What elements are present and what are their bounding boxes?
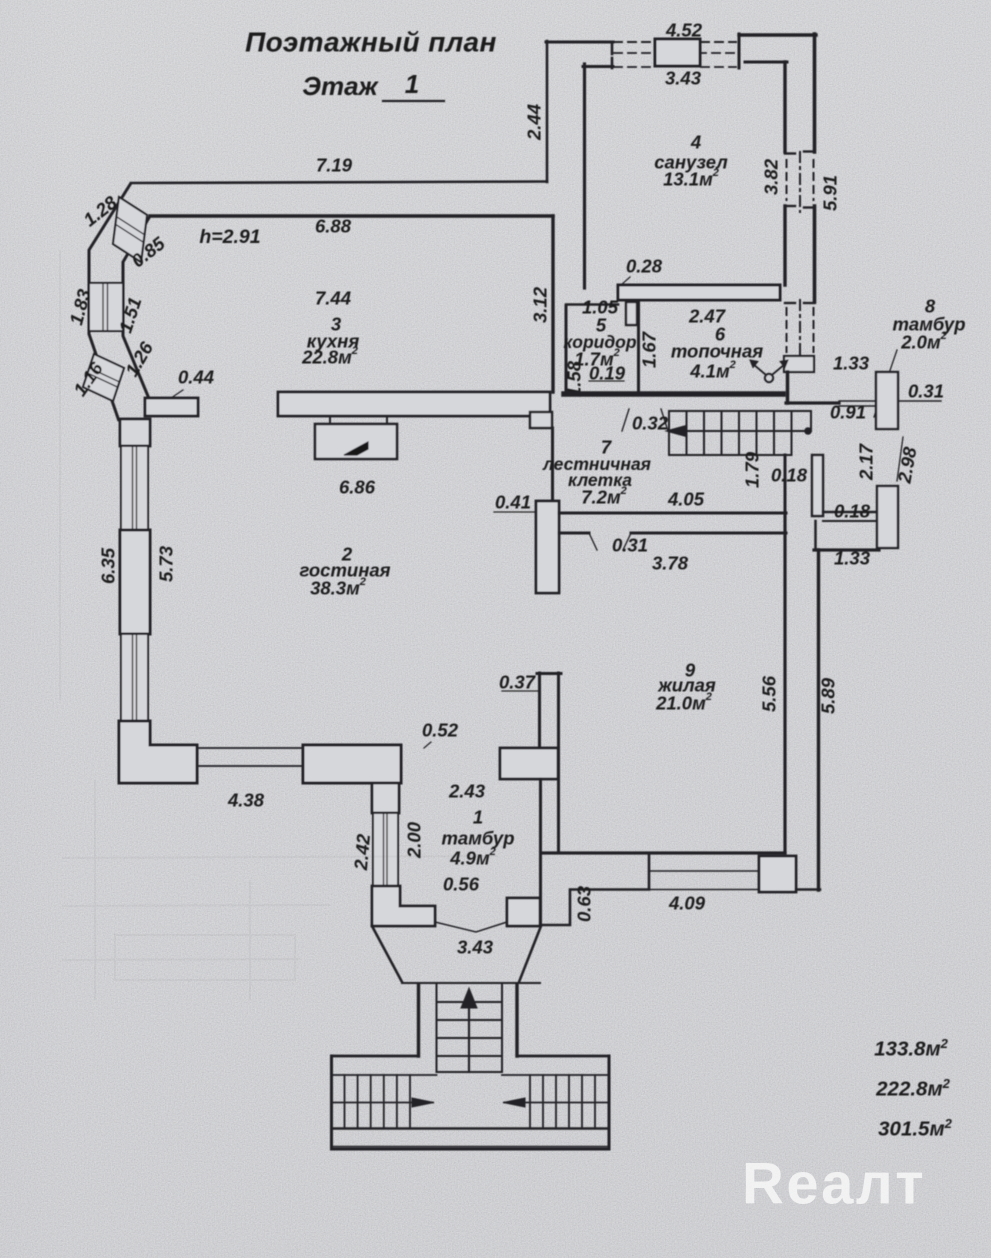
svg-text:0.63: 0.63	[574, 885, 595, 922]
svg-text:13.1м2: 13.1м2	[663, 167, 719, 190]
svg-text:5.73: 5.73	[156, 545, 177, 582]
wall block 0.44	[145, 398, 198, 416]
svg-text:4.09: 4.09	[668, 893, 706, 914]
svg-text:6.86: 6.86	[339, 477, 376, 498]
svg-text:222.8м2: 222.8м2	[875, 1076, 950, 1101]
east window2 feet top	[785, 302, 795, 304]
door symbol	[765, 374, 773, 382]
window 4.09 lines	[649, 870, 759, 872]
leader 0.28	[621, 277, 630, 285]
porch arrow right	[412, 1098, 434, 1107]
dim 2.44	[524, 104, 545, 141]
wall: SW corner block	[119, 721, 197, 783]
dim 6.35	[98, 547, 119, 584]
wall: room8 south (1.33)	[786, 401, 839, 404]
svg-text:4.05: 4.05	[667, 489, 705, 510]
wall: landing south bottom line a	[559, 532, 589, 535]
wall: топочная west stub	[626, 302, 637, 325]
floor underline	[383, 100, 444, 102]
east window dash-dot axis	[799, 152, 801, 212]
wall: tambour west upper	[372, 783, 399, 813]
fireplace box	[315, 424, 397, 459]
svg-text:22.8м2: 22.8м2	[301, 345, 358, 368]
dim 1.67	[639, 330, 660, 368]
svg-text:тамбур: тамбур	[441, 828, 514, 849]
dim 1.51	[114, 295, 145, 336]
wall: NE outer vertical mid	[813, 206, 817, 302]
svg-text:1: 1	[405, 69, 419, 99]
svg-text:2.0м2: 2.0м2	[900, 330, 947, 353]
svg-text:3.12: 3.12	[530, 286, 551, 323]
door threshold line	[435, 922, 507, 932]
svg-text:Reaлт: Reaлт	[742, 1152, 926, 1217]
wall: room8 west	[786, 372, 790, 403]
dim 2.17	[856, 442, 877, 481]
svg-text:0.91: 0.91	[830, 402, 866, 423]
wall: south mid block	[303, 745, 401, 783]
svg-text:2.42: 2.42	[350, 832, 374, 871]
svg-text:1.33: 1.33	[833, 353, 870, 374]
dim 0.31 line	[899, 400, 941, 402]
svg-text:1.67: 1.67	[639, 330, 660, 368]
dim 2.98	[893, 445, 920, 486]
wall: room4 inner east lower	[783, 206, 786, 285]
wall: landing west wall	[551, 428, 554, 501]
wall: kitchen inner top (6.88)	[150, 214, 553, 217]
window WB west	[121, 634, 148, 721]
porch inner line top	[332, 1074, 437, 1076]
wall: NW inner diagonal+west	[123, 216, 150, 401]
dim 1.16	[69, 358, 107, 400]
svg-text:0.31: 0.31	[612, 535, 648, 556]
svg-text:301.5м2: 301.5м2	[878, 1116, 952, 1141]
svg-text:4.52: 4.52	[665, 20, 703, 41]
svg-text:21.0м2: 21.0м2	[655, 691, 712, 714]
porch low line2	[332, 1146, 610, 1148]
svg-text:h=2.91: h=2.91	[199, 226, 260, 248]
wall: kitchen outer top (7.19)	[131, 182, 547, 184]
wall: east jog vertical	[814, 521, 817, 550]
wall: коридор top	[566, 303, 618, 306]
dim 0.37 underline	[502, 690, 538, 692]
porch flight wall left	[417, 984, 420, 1056]
svg-text:5.91: 5.91	[820, 175, 841, 211]
wall: SE corner block	[759, 856, 796, 892]
porch flight treads	[437, 1001, 503, 1003]
east window2 dashed inner	[786, 308, 788, 352]
wall: room8 top block	[784, 356, 814, 372]
wall: west top block	[120, 419, 150, 446]
dim 1.83	[65, 286, 95, 327]
porch wing treads left	[344, 1075, 346, 1128]
east window feet lower	[785, 205, 795, 207]
svg-text:3.43: 3.43	[457, 937, 494, 958]
svg-text:6.35: 6.35	[98, 547, 119, 584]
svg-text:0.18: 0.18	[834, 501, 871, 522]
east window feet upper	[785, 152, 795, 154]
wall: landing south bottom line b	[631, 532, 786, 535]
wall: tambour SE block	[507, 898, 540, 926]
window 4.52 dashed low-left	[614, 66, 654, 68]
wall: annex top-right outer	[739, 33, 816, 36]
svg-text:38.3м2: 38.3м2	[310, 576, 366, 599]
window tick left upper	[611, 42, 614, 54]
svg-text:0.44: 0.44	[178, 367, 214, 388]
window 4.52 dashed top-left	[614, 41, 654, 43]
dim 1.58	[564, 360, 585, 397]
window tick right	[738, 34, 741, 68]
window WA west	[121, 446, 148, 530]
leader 0.44	[171, 390, 183, 398]
door box lower	[877, 486, 898, 548]
door trapezoid 0.31	[589, 533, 597, 550]
dim 0.19 underline	[589, 380, 624, 382]
east window2 dash-dot axis	[799, 300, 801, 356]
fireplace icon	[344, 442, 368, 455]
wall: room4 inner top	[745, 61, 787, 64]
window tick left lower	[611, 58, 614, 68]
svg-text:1.33: 1.33	[834, 548, 871, 569]
window WC tambour	[373, 813, 398, 886]
dim 5.89	[818, 677, 839, 714]
porch platform line	[402, 982, 540, 984]
svg-text:7.19: 7.19	[316, 155, 353, 176]
wall: east bar	[812, 455, 823, 516]
dim 2.00	[404, 821, 425, 859]
porch flight wall right	[515, 984, 518, 1056]
porch wing treads right	[529, 1075, 531, 1128]
porch block outline	[330, 1056, 333, 1149]
dim 1.26	[121, 338, 158, 380]
wall: divider 2/9 east line	[557, 673, 560, 853]
svg-text:0.19: 0.19	[589, 363, 626, 384]
fireplace connectors	[329, 416, 331, 424]
door box upper	[876, 372, 898, 429]
svg-text:7.44: 7.44	[315, 288, 351, 309]
east window2 dashed outer	[813, 308, 815, 352]
window W2 west	[89, 283, 123, 331]
svg-text:4.9м2: 4.9м2	[449, 846, 496, 869]
svg-text:2.00: 2.00	[404, 821, 425, 859]
svg-text:3.78: 3.78	[652, 553, 689, 574]
dim 1.79	[742, 451, 763, 488]
wall: tambour SW block	[372, 886, 435, 926]
svg-text:5.56: 5.56	[759, 675, 780, 712]
svg-text:4: 4	[690, 132, 701, 153]
dim 3.12	[530, 286, 551, 323]
window 4.52 dashed top-right	[701, 41, 736, 43]
wall: room9 west	[557, 852, 560, 855]
svg-text:топочная: топочная	[671, 341, 763, 362]
wall: kitchen east	[551, 216, 554, 392]
wall: room9 east	[783, 513, 786, 853]
svg-text:Поэтажный план: Поэтажный план	[245, 27, 497, 58]
porch up arrow	[468, 1000, 470, 1072]
window room8 lines	[839, 400, 876, 402]
svg-text:2.43: 2.43	[448, 781, 486, 802]
wall: топочная west	[637, 302, 640, 392]
stairs direction dot	[804, 427, 812, 435]
wall: band room4/room6 (0.28)	[618, 285, 780, 300]
svg-text:4.1м2: 4.1м2	[689, 359, 736, 382]
wall: pillar 0.41	[536, 501, 559, 593]
wall: kitchen south band	[278, 392, 550, 416]
wall: tambour right west line	[539, 779, 542, 925]
porch flare right	[519, 926, 541, 982]
dim 0.63	[574, 885, 595, 922]
wall: annex top-left	[546, 41, 613, 44]
svg-text:1: 1	[473, 807, 483, 828]
wall: east jog bottom (1.33)	[814, 548, 879, 551]
svg-text:1.79: 1.79	[742, 451, 763, 488]
wall: NE outer corner vertical	[813, 34, 817, 152]
faint bleed-through ghost lines	[60, 250, 498, 1000]
wall: room4 west	[583, 64, 586, 288]
svg-text:0.31: 0.31	[908, 381, 944, 402]
wall: south band outline	[541, 853, 649, 925]
east window dashed inner	[786, 160, 788, 200]
east window dashed outer	[813, 160, 815, 200]
wall: divider 2/9 cap	[537, 672, 561, 675]
svg-text:4.38: 4.38	[227, 790, 265, 811]
svg-text:3.82: 3.82	[761, 158, 782, 195]
wall: divider 2/9 west line	[538, 673, 541, 748]
svg-text:0.37: 0.37	[499, 672, 537, 693]
wall: room4 inner top-left	[583, 65, 613, 68]
dim 5.91	[820, 175, 841, 211]
svg-text:0.32: 0.32	[632, 413, 669, 434]
window 4.52 frame box	[655, 39, 700, 66]
dim 1.28	[79, 191, 121, 230]
wall: room4 inner east upper	[783, 62, 786, 152]
window 4.52 dashed mid	[614, 52, 736, 54]
wall: room9 south	[541, 851, 785, 854]
leader 2.98	[897, 437, 903, 481]
svg-text:Этаж: Этаж	[302, 71, 379, 101]
svg-text:133.8м2: 133.8м2	[874, 1036, 948, 1061]
wall: landing south top line	[559, 512, 786, 515]
svg-text:3.43: 3.43	[665, 68, 702, 89]
wall: NW outer diagonal+west	[89, 183, 131, 421]
window W3 diagonal	[83, 354, 124, 401]
wall: SE corner link	[796, 888, 820, 891]
dim 0.32 trapezoid	[622, 409, 629, 431]
svg-text:0.52: 0.52	[422, 720, 459, 741]
porch arrow left	[503, 1098, 525, 1107]
leader 0.52	[424, 742, 431, 748]
svg-text:0.28: 0.28	[626, 256, 663, 277]
stairs arrowhead	[666, 426, 686, 437]
svg-text:0.56: 0.56	[443, 874, 480, 895]
wall: east jog lines	[823, 511, 876, 514]
dim 0.41 underline	[494, 511, 536, 513]
wall: топочная/лестница south	[564, 391, 783, 397]
dim 5.73	[156, 545, 177, 582]
dim 2.42	[350, 832, 374, 871]
window W1 diagonal	[113, 197, 147, 262]
porch flight inner right	[501, 984, 503, 1072]
svg-text:6.88: 6.88	[315, 216, 352, 237]
svg-text:5.89: 5.89	[818, 677, 839, 714]
svg-text:2.44: 2.44	[524, 104, 545, 141]
wall: north annex left thin vertical (2.44)	[546, 41, 549, 182]
wall: коридор west	[565, 306, 568, 392]
window south lines	[197, 747, 303, 749]
leader room8	[874, 350, 897, 417]
wall: kitchen south band step	[530, 412, 552, 428]
svg-text:7.2м2: 7.2м2	[581, 485, 627, 508]
wall: landing east jog	[784, 455, 787, 513]
porch flight inner left	[436, 984, 438, 1072]
svg-text:2.17: 2.17	[856, 442, 877, 481]
wall: west pier block	[120, 530, 150, 634]
svg-text:0.41: 0.41	[495, 492, 531, 513]
wall: east outer lower	[817, 550, 820, 890]
svg-text:0.18: 0.18	[771, 465, 808, 486]
dim 3.82	[761, 158, 782, 195]
dim 0.85	[127, 232, 169, 271]
stairs room7 treads	[668, 411, 670, 455]
window 4.52 dashed low-right	[701, 66, 736, 68]
porch flare left	[372, 926, 402, 982]
porch mid line	[332, 1102, 434, 1104]
wall: tambour NE step block	[500, 748, 558, 779]
porch low line	[332, 1127, 610, 1129]
dim 5.56	[759, 675, 780, 712]
